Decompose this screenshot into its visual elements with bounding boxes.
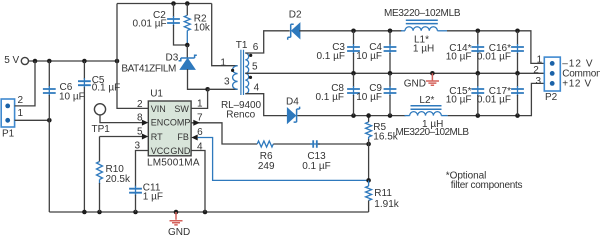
connector P1 [1, 99, 14, 127]
label R10 value [106, 164, 131, 185]
svg-text:0.01 µF: 0.01 µF [477, 95, 511, 106]
wire P1 pin2 to 5V rail [15, 61, 35, 106]
capacitor C2 [167, 4, 187, 46]
capacitor C16 [511, 31, 524, 74]
svg-text:EN: EN [151, 118, 164, 128]
label C4 value [356, 42, 382, 62]
label R5 value [373, 122, 398, 143]
junction U1-GND-pin drop [203, 210, 208, 215]
svg-text:VIN: VIN [151, 104, 166, 114]
resistor R11 [366, 180, 372, 212]
junction C3 top [351, 29, 356, 34]
capacitor C15 [471, 73, 484, 115]
wire T1 pin4 to D4 [245, 94, 287, 116]
wire R6 to C13 [273, 143, 312, 145]
svg-text:6: 6 [253, 42, 259, 53]
label L1 value [413, 35, 434, 55]
svg-text:U1: U1 [150, 89, 163, 100]
svg-text:20.5k: 20.5k [106, 174, 131, 185]
svg-text:10 µF: 10 µF [59, 92, 85, 103]
resistor R2 [184, 4, 190, 46]
inductor L2 [405, 106, 448, 116]
label R6 value [258, 151, 275, 172]
label T1 part RL-9400 Renco [221, 100, 261, 121]
wire COMP pin to compensation [191, 123, 257, 144]
capacitor C8 [347, 73, 360, 115]
svg-text:ME3220–102MLB: ME3220–102MLB [396, 127, 470, 138]
svg-text:GND: GND [170, 146, 191, 156]
svg-text:LM5001MA: LM5001MA [147, 158, 200, 169]
wire FB feedback (blue) [198, 138, 369, 181]
svg-text:0.1 µF: 0.1 µF [302, 161, 331, 172]
svg-text:10 µF: 10 µF [356, 92, 382, 103]
svg-text:0.1 µF: 0.1 µF [92, 83, 121, 94]
svg-text:FB: FB [177, 132, 189, 142]
junction R2 top [185, 1, 190, 6]
junction R5/R6C13 node [366, 142, 371, 147]
wire U1 GND pin to rail [191, 151, 205, 213]
svg-text:R11: R11 [374, 188, 392, 199]
label C5 value [92, 75, 121, 94]
svg-text:D4: D4 [286, 97, 299, 108]
junction C16-C17 [515, 71, 520, 76]
capacitor C3 [347, 31, 360, 74]
wire L2 to P2 pin3 [448, 83, 544, 115]
junction C3-C8 [351, 71, 356, 76]
svg-text:0.01 µF: 0.01 µF [477, 51, 511, 62]
diode D4 schottky [288, 107, 300, 123]
junction R10-bottom [97, 210, 102, 215]
wire T1 pin6 to D2 [245, 31, 289, 53]
transformer T1 secondary lower winding [245, 73, 248, 93]
svg-text:2: 2 [18, 95, 24, 106]
wire R5 node to FB node [368, 144, 370, 180]
capacitor C17 [511, 73, 524, 115]
capacitor C13 [310, 143, 320, 145]
svg-text:0.1 µF: 0.1 µF [315, 92, 344, 103]
wire +12V rail to L2 [297, 115, 405, 117]
wire RT pin [100, 136, 143, 138]
svg-text:0.1 µF: 0.1 µF [316, 51, 345, 62]
svg-text:1 µF: 1 µF [143, 191, 163, 202]
test point TP1 [94, 104, 142, 123]
ground GND common symbol [426, 73, 439, 85]
junction SW node [205, 87, 210, 92]
wire common rail [245, 72, 544, 74]
inductor L1 [401, 20, 447, 31]
svg-text:1.91k: 1.91k [374, 199, 399, 210]
svg-text:D3: D3 [166, 52, 179, 63]
junction C5-bottom [82, 210, 87, 215]
diode D2 schottky [288, 24, 300, 40]
junction C4 top [388, 29, 393, 34]
svg-text:P2: P2 [545, 92, 558, 103]
label C16 value [477, 43, 511, 62]
junction C11-bottom [133, 210, 138, 215]
svg-text:5: 5 [252, 61, 258, 72]
transformer T1 secondary upper winding [245, 53, 248, 73]
junction C5 top [82, 59, 87, 64]
arrow into EN pin [142, 120, 148, 126]
svg-text:0.01 µF: 0.01 µF [133, 19, 167, 30]
wire clamp left vertical / VIN feed [117, 4, 148, 109]
capacitor C11 on VCC [129, 151, 148, 213]
svg-text:1: 1 [18, 108, 24, 119]
junction C6 top [47, 59, 52, 64]
junction P1 pin1 / C6 line [47, 118, 52, 123]
wire clamp top rail [117, 3, 212, 5]
svg-text:2: 2 [137, 99, 143, 110]
capacitor C5 [78, 61, 91, 212]
svg-text:7: 7 [197, 112, 203, 123]
junction GND common [430, 71, 435, 76]
svg-text:SW: SW [174, 104, 189, 114]
svg-text:+12 V: +12 V [562, 78, 591, 89]
connector P2 [544, 57, 560, 91]
svg-text:VCC: VCC [151, 146, 171, 156]
wire -12V rail to L1 [299, 30, 402, 32]
svg-text:D2: D2 [289, 9, 302, 20]
svg-text:filter components: filter components [451, 180, 523, 191]
svg-text:10k: 10k [194, 22, 211, 33]
svg-text:5 V: 5 V [4, 55, 19, 66]
svg-text:2: 2 [533, 65, 539, 76]
svg-text:10 µF: 10 µF [446, 95, 472, 106]
svg-text:GND: GND [404, 78, 426, 89]
ground GND primary [170, 212, 183, 225]
junction C14 top [476, 29, 481, 34]
svg-text:10 µF: 10 µF [446, 51, 472, 62]
junction C14-C15 [476, 71, 481, 76]
label C14 value [446, 43, 472, 62]
junction 5V/VIN/clamp [115, 59, 120, 64]
resistor R5 [366, 116, 372, 144]
svg-text:4: 4 [254, 82, 260, 93]
svg-text:BAT41ZFILM: BAT41ZFILM [121, 64, 176, 75]
capacitor C6 [43, 61, 56, 212]
phase dot secondary lower [249, 76, 252, 79]
transformer T1 primary winding [233, 66, 238, 90]
phase dot secondary upper [249, 54, 252, 57]
arrow into RT pin [142, 134, 148, 140]
svg-text:COMP: COMP [163, 118, 190, 128]
label C11 value [143, 183, 163, 203]
svg-text:1: 1 [220, 57, 226, 68]
svg-text:1 µH: 1 µH [413, 43, 434, 54]
label C8 value [315, 83, 344, 103]
svg-text:RT: RT [151, 132, 163, 142]
transformer T1 core [241, 50, 244, 95]
wire T1 pin3 stub [208, 88, 238, 90]
svg-text:3: 3 [224, 77, 230, 88]
wire C13 to FB node [318, 143, 369, 145]
wire 5V rail [29, 60, 117, 62]
label L2 value [419, 95, 443, 130]
label C2 value [133, 10, 167, 30]
label C15 value [446, 86, 472, 106]
junction C8 bottom [351, 113, 356, 118]
junction C4-C9 [388, 71, 393, 76]
diode D3 schottky [179, 45, 208, 89]
svg-text:Renco: Renco [226, 110, 255, 121]
svg-text:ME3220–102MLB: ME3220–102MLB [384, 8, 461, 19]
svg-text:6: 6 [197, 127, 203, 138]
arrow into FB pin [191, 135, 197, 141]
junction clamp bottom node [185, 43, 190, 48]
label C9 value [356, 83, 382, 103]
junction R5 top [366, 113, 371, 118]
5V input terminal [21, 57, 28, 64]
capacitor C9 [384, 73, 397, 115]
junction FB divider node [366, 178, 371, 183]
junction C9 bottom [388, 113, 393, 118]
label C13 value [302, 151, 331, 172]
phase dot primary [231, 69, 234, 72]
svg-text:3: 3 [536, 76, 542, 87]
wire bottom ground rail [49, 211, 368, 213]
svg-text:TP1: TP1 [92, 124, 111, 135]
junction C17 bottom [515, 113, 520, 118]
junction C15 bottom [476, 113, 481, 118]
wire L1 to P2 pin1 [447, 31, 544, 64]
svg-text:L2*: L2* [419, 95, 434, 106]
junction P1-pin2 riser on 5V rail [33, 59, 38, 64]
svg-text:T1: T1 [236, 40, 248, 51]
resistor R6 [257, 141, 273, 147]
label C3 value [316, 42, 345, 62]
label C17 value [477, 86, 511, 106]
svg-text:10 µF: 10 µF [356, 51, 382, 62]
junction GND-stub [174, 210, 179, 215]
wire SW pin [191, 89, 208, 108]
capacitor C4 [384, 31, 397, 74]
junction C16 top [515, 29, 520, 34]
label R11 value [374, 188, 399, 210]
label R2 value [194, 14, 211, 34]
svg-text:1: 1 [537, 55, 543, 66]
op-amp U1 LM5001 body [148, 101, 191, 156]
arrow out of COMP pin [193, 120, 200, 126]
resistor R10 [97, 137, 103, 213]
svg-text:P1: P1 [2, 129, 15, 140]
wire P1 pin1 to ground line [15, 119, 50, 121]
label C6 value [59, 82, 85, 103]
svg-text:GND: GND [168, 227, 190, 236]
svg-text:249: 249 [258, 161, 275, 172]
capacitor C14 [471, 31, 484, 74]
junction C2 top [171, 1, 176, 6]
note optional filter components [446, 170, 523, 191]
wire T1 pin1 from clamp rail [212, 4, 238, 66]
